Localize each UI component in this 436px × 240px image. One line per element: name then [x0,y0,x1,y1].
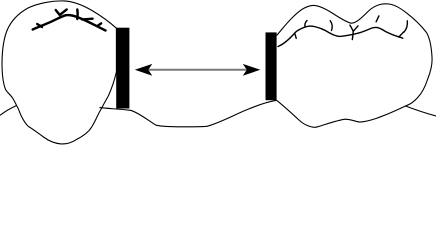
right fissure main groove [278,26,403,46]
double arrow [135,64,260,76]
fissure tick c [330,21,332,31]
gum line between teeth [100,100,277,127]
matrix band right tooth [266,32,277,100]
left fissure branch 2 (cusp V) [56,10,67,15]
left fissure branch 1 [37,24,42,27]
fissure tick e [404,21,407,32]
fissure tick b [305,21,307,27]
left fissure branch 5 [97,23,101,26]
fissure tick d [376,16,379,22]
arrowhead left [135,64,153,76]
left fissure main groove [33,15,106,30]
left tooth outline [2,1,116,144]
arrowhead right [243,64,260,76]
gum line right edge [406,106,436,116]
right tooth outline [277,4,432,127]
fissure tick a [295,33,297,38]
left tooth fissure [33,10,106,31]
arrow shaft [148,69,247,71]
fissure Y at valley [350,25,358,39]
matrix band left tooth [116,28,129,109]
left fissure branch 4 [82,18,93,21]
fissure end fork [399,32,404,37]
right tooth fissure line [278,16,407,47]
left fissure branch 3 [76,10,79,20]
gum line left edge [0,105,17,115]
